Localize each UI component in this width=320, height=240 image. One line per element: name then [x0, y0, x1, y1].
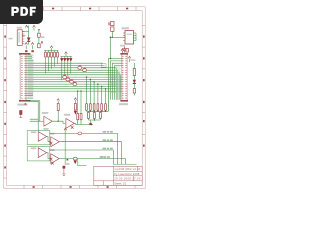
sheet background [0, 0, 149, 198]
supply chevron above R1 [57, 99, 59, 101]
wire below diode D5 [28, 42, 30, 45]
frame column ticks top [25, 7, 136, 11]
wire U2 input net down to SV2 pin net [110, 37, 112, 58]
capacitor C6 right of SV2 top [126, 49, 129, 52]
relay K1 body top left [17, 30, 22, 46]
left bus horizontals [30, 119, 40, 121]
IC1C name label [31, 131, 37, 133]
junction dot on RN2 lower rail [94, 119, 95, 120]
svg-text:myAVR MK2 v2.20: myAVR MK2 v2.20 [114, 167, 141, 171]
red dot near rail [67, 159, 69, 161]
resistor network RN2 resistors [86, 104, 107, 110]
ground symbol below RN2 ladder [89, 123, 91, 125]
value text right of SV2 [131, 59, 136, 61]
connector SV1 pin column left [21, 56, 23, 98]
diode D5 on vertical net [27, 38, 30, 42]
wire stubs SV1 top rows [26, 56, 33, 61]
badge letter P [11, 7, 19, 16]
connector SV2 pin column right [125, 56, 127, 98]
RN2 upper rail [87, 110, 109, 112]
pin marker above SV1 left [25, 50, 27, 52]
junction dots on U2 wire [110, 37, 113, 38]
jumper pad J1 on wire [78, 66, 82, 69]
supply symbol +5V above SV1 right [31, 43, 34, 45]
junction dots divider chain on bus [77, 90, 82, 91]
svg-text:29.05.2008 17:00: 29.05.2008 17:00 [114, 177, 141, 181]
feedback loop box around IC2A [27, 147, 50, 161]
supply tick above R2 [74, 98, 76, 100]
IC2B name label [49, 149, 55, 151]
C1 ground stub [20, 115, 23, 118]
diode group D1-D4 [61, 58, 72, 61]
w1 net label [103, 131, 113, 133]
ladder resistor RL3 [100, 112, 102, 118]
wire stub from w4 down right [78, 159, 87, 166]
supply arrow below badge left [25, 25, 28, 27]
divider resistor R6 lower [80, 114, 82, 120]
supply stub above SV1 right [32, 45, 34, 49]
U2 name label [122, 27, 130, 29]
jumper pad on w4 [73, 157, 77, 160]
crystal Q1 box upper [38, 33, 41, 37]
K1 internal text [18, 32, 20, 43]
RN2 lower rail [88, 118, 100, 122]
resistor R2 and diode above opamp IC1B [74, 104, 76, 111]
K1 pins right [22, 32, 24, 44]
junction dots on RN2 upper rail [90, 111, 107, 112]
wire into IC1A [40, 120, 44, 122]
wire rail above diode group [61, 54, 73, 58]
pin marker above SV1 right [31, 50, 33, 52]
frame row ticks right [142, 25, 145, 134]
SV1 bottom text label [18, 104, 28, 106]
output wire w4 [59, 159, 125, 165]
supply arrow below badge right [33, 25, 36, 27]
junction dot R1 to comparator wire [58, 121, 59, 122]
no-connect cross at IC2B [51, 162, 54, 165]
LED D9 below R12 [111, 27, 114, 31]
wire into regulator U2 [110, 36, 125, 38]
wire rail above RN1 [44, 48, 59, 52]
frame column label marks top [52, 8, 128, 10]
C2 wire down [63, 169, 65, 174]
title block right cell row dividers [113, 166, 142, 181]
diode D7 right column [133, 80, 136, 84]
wire bus SV1 straight to SV2 lower pins [26, 77, 122, 91]
C2 value label [66, 163, 69, 165]
diode D8 below w4 jumper [74, 161, 77, 164]
wire IC1B out to divider node [74, 123, 75, 124]
opamp supply rail vertical [64, 128, 66, 165]
frame row ticks left [4, 25, 7, 178]
LED D8 right column lower [133, 89, 135, 94]
resistor R1 above opamp IC1A [57, 104, 59, 111]
wire between crystal boxes [38, 37, 40, 44]
diode mark at IC2A loop output [50, 158, 53, 161]
supply chevron right of SV2 top [128, 56, 130, 58]
jumper pad J3 on wire [63, 76, 67, 79]
value label beside crystal [41, 36, 44, 38]
connector SV2 body outline [122, 54, 127, 101]
wire bus SV1 rows to band corners [26, 63, 121, 100]
wire IC1A out to IC1B [52, 121, 65, 123]
voltage regulator U2 body [125, 31, 134, 45]
frame column ticks bottom [24, 185, 135, 188]
title block vertical divider [112, 166, 114, 185]
supply stub right of SV2 top [129, 59, 131, 63]
thick net wire below SV1 [26, 99, 40, 102]
capacitor C7 below U2 [122, 47, 126, 53]
divider resistor R5 lower [77, 114, 79, 120]
pale wire band left of SV2 [115, 66, 120, 100]
U2 internal text [127, 34, 133, 36]
test point box TP1 [101, 64, 106, 68]
wire K1 net vertical [28, 26, 30, 38]
wire IC1C out to IC1D [47, 137, 51, 142]
svg-text:by Laser&Co 2008: by Laser&Co 2008 [114, 172, 140, 176]
op-amp IC1B [66, 119, 74, 129]
badge letter F [30, 7, 36, 16]
jumper pad on w1 [78, 132, 82, 135]
w2 net label [103, 139, 113, 141]
output wire w3 [50, 150, 137, 164]
diode below R2 [74, 111, 77, 114]
wire drops bus to resistor network RN2 [87, 77, 109, 111]
wire stub above R11 [133, 63, 135, 69]
frame column label marks bottom [33, 186, 109, 188]
IC2A name label [31, 147, 37, 149]
w3 net label [103, 148, 113, 150]
IC1B name label [64, 114, 71, 116]
ladder resistor RL1 [88, 112, 90, 118]
op-amp IC1A [44, 116, 52, 126]
supply stub above SV1 left [25, 45, 27, 49]
U2 pins right [134, 33, 137, 41]
jumper pad J4 on wire [66, 78, 70, 81]
ground symbol below C2 [62, 174, 65, 175]
wire LED D9 down to U2 input wire [111, 31, 113, 37]
IC1A value label [44, 128, 49, 130]
jumper pad J6 on wire [73, 83, 77, 86]
junction speck above crystal [38, 29, 40, 30]
connector SV1 top bar [19, 53, 31, 54]
output wire w2 [59, 142, 121, 165]
wires RN1 down to bus [46, 57, 58, 74]
resistor R12 top right [111, 21, 114, 25]
svg-text:Sheet: 1/1: Sheet: 1/1 [114, 181, 127, 185]
wire D7 to D8 [133, 84, 135, 96]
wires diode group down to bus [62, 61, 71, 80]
connector SV1 bottom bar [19, 100, 31, 101]
frame row label marks right [143, 36, 145, 147]
op-amp IC2B [51, 154, 59, 164]
wire K1 pin to net [22, 32, 29, 36]
connector SV2 bottom bar [120, 100, 128, 101]
R2 top stub [74, 100, 76, 104]
jumper pad J5 on wire [70, 80, 74, 83]
frame row label marks left [4, 36, 6, 169]
supply symbol above SV2 [121, 49, 124, 54]
no-connect cross X1 [71, 126, 74, 129]
supply stem below badge right arrow [33, 28, 35, 31]
junction dot comparator node [91, 124, 92, 125]
supply symbol +5V above SV1 left [25, 43, 28, 45]
jumper name specks [63, 65, 86, 82]
R1 stubs [57, 101, 59, 121]
red mark beside crystal [41, 41, 42, 43]
wire junction dots on bus [86, 76, 106, 89]
small gray text bits around schematic [9, 27, 126, 158]
connector SV2 name label [119, 103, 128, 105]
left bus verticals to opamp section [38, 101, 40, 131]
connector SV2 top bar [120, 53, 128, 54]
title block outer rectangle [94, 166, 142, 185]
ladder resistor RL2 [94, 112, 96, 118]
op-amp IC1D [51, 137, 59, 147]
title block left cell dividers [94, 181, 114, 186]
badge letter D [20, 7, 28, 16]
feedback loop box around IC1C [27, 131, 50, 145]
IC1A name label [42, 112, 49, 114]
wire stub above crystal [38, 30, 40, 34]
w4 net label [100, 156, 110, 158]
decoupling capacitor C2 below rail [63, 166, 66, 169]
connector SV2 pin column left [122, 56, 124, 98]
supply symbol +5V above RN1 [50, 46, 53, 48]
output wire w1 [50, 133, 118, 164]
wires divider chain verticals [78, 91, 81, 124]
resistor R11 right column [133, 69, 135, 76]
IC1D name label [49, 133, 55, 135]
supply chevron atop opamp rail [64, 128, 67, 130]
net name labels on lower bus wires [28, 54, 34, 97]
wire SV1 lower rows to left bus [26, 93, 33, 98]
op-amp IC2A [38, 148, 46, 158]
net name labels on wires left of SV2 [110, 75, 117, 93]
connector SV1 body outline [20, 54, 26, 101]
crystal Q1 box lower [38, 44, 41, 48]
wire R11 to D7 [133, 76, 135, 81]
frame inner border [7, 11, 143, 186]
jumper pad J2 on wire [83, 69, 87, 72]
U2 pins left ticks [123, 33, 125, 41]
supply symbol above diode group [65, 52, 68, 54]
diode mark at IC1C loop output [50, 142, 53, 145]
op-amp IC1C [38, 132, 46, 142]
PDF badge overlay [0, 0, 43, 24]
resistor network RN1 pull-ups [45, 52, 59, 57]
R12 name speck [108, 22, 110, 25]
frame outer border [4, 7, 146, 189]
junction dot at SV2 pin net [110, 58, 111, 59]
wire SV2 upper pins to verticals descending [108, 59, 122, 112]
polarized capacitor C1 [19, 110, 22, 115]
wire divider rail to comparator node [76, 124, 94, 126]
connector SV1 pin column right [24, 56, 26, 98]
wire IC2A out to IC2B [47, 153, 51, 159]
